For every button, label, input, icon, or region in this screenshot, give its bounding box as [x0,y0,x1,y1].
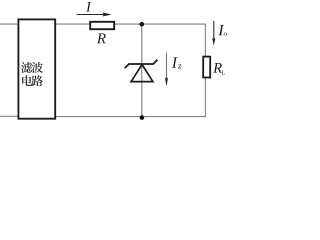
label R [97,33,106,43]
zener diode triangle [131,65,153,82]
current arrow I [77,12,112,16]
node bottom junction [140,115,145,120]
label Iz [172,57,182,68]
wire bottom rail [55,116,206,118]
label Io [218,25,226,36]
node top junction [140,22,145,27]
wire input top-left [0,23,19,25]
resistor RL [203,57,210,78]
wire right vertical [204,24,206,117]
label I [86,2,91,11]
filter box [18,19,55,118]
current arrow Io [212,21,215,46]
wire top rail [55,23,206,25]
label 滤波电路 [21,62,43,86]
resistor R [90,22,114,29]
current arrow Iz [165,52,168,86]
label RL [213,63,225,75]
wire input bottom-left [0,115,19,117]
wire zener branch vertical [141,24,143,117]
zener diode bar with bent ends [125,60,158,68]
